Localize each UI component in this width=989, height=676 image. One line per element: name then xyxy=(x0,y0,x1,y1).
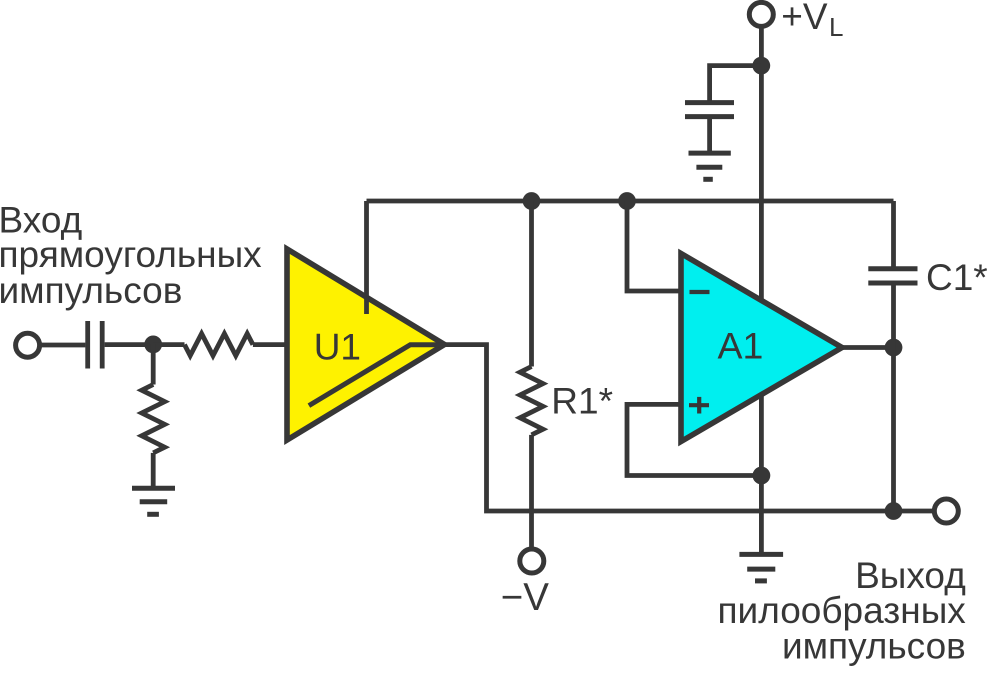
wire: resistor to U1 xyxy=(253,342,287,347)
svg-text:L: L xyxy=(829,12,843,42)
label: input text "Вход прямоугольных импульсов" xyxy=(0,200,262,311)
svg-text:−V: −V xyxy=(501,576,549,619)
capacitor C1* xyxy=(868,269,917,283)
wire: C1 down to output node xyxy=(891,283,896,511)
capacitor (supply decoupling) xyxy=(685,103,734,117)
node: A1 ground return xyxy=(753,467,771,485)
svg-text:C1*: C1* xyxy=(926,257,988,298)
wire: input node down to shunt resistor xyxy=(151,344,156,384)
svg-text:импульсов: импульсов xyxy=(782,626,966,667)
node: A1 output / C1 xyxy=(885,339,903,357)
output terminal xyxy=(934,499,958,523)
op-amp U1 xyxy=(287,249,445,440)
label: output text "Выход пилообразных импульсов" xyxy=(718,555,967,667)
op-amp A1 xyxy=(681,254,842,442)
svg-text:импульсов: импульсов xyxy=(0,270,182,311)
terminal −V xyxy=(520,549,544,573)
ground (input) xyxy=(132,488,175,514)
node: rail / R1 xyxy=(523,192,541,210)
svg-text:прямоугольных: прямоугольных xyxy=(0,234,262,275)
wire: input terminal to coupling capacitor xyxy=(40,343,86,348)
wire: rail down to A1 inverting input xyxy=(627,201,681,291)
resistor R1* xyxy=(520,201,543,549)
node: output junction xyxy=(885,502,903,520)
wire: decoupling branch xyxy=(710,66,762,103)
svg-text:+V: +V xyxy=(781,0,828,37)
wire: A1 output to C1 node xyxy=(842,345,894,350)
power terminal +VL xyxy=(749,2,773,26)
label +VL xyxy=(781,0,843,42)
svg-text:U1: U1 xyxy=(314,327,361,368)
wire: decoupling capacitor to ground xyxy=(707,117,712,154)
wire: node to series resistor xyxy=(153,342,185,347)
ground (A1) xyxy=(739,554,783,581)
wire: U1 output to bottom rail xyxy=(445,345,933,511)
wire: shunt resistor to ground xyxy=(151,453,156,488)
wire: A1 non-inverting input loop xyxy=(627,404,761,475)
input terminal xyxy=(16,333,40,357)
node: rail / A1 inverting branch xyxy=(618,192,636,210)
resistor (input shunt to ground) xyxy=(142,385,165,453)
wire: capacitor to input node xyxy=(105,342,154,347)
ground (decoupling) xyxy=(689,153,731,179)
wire: U1 top pin up to integrator rail xyxy=(364,201,369,314)
wire: rail corner down to C1 xyxy=(891,201,896,269)
resistor (series input) xyxy=(185,334,253,356)
svg-text:R1*: R1* xyxy=(551,380,613,421)
wire: +VL down through A1 to ground (behind A1) xyxy=(759,27,764,555)
node: input junction xyxy=(144,336,162,354)
wire: top rail xyxy=(367,199,894,204)
svg-text:A1: A1 xyxy=(718,324,764,366)
capacitor (input coupling) xyxy=(88,321,103,369)
node: +VL / decoupling branch xyxy=(752,57,770,75)
